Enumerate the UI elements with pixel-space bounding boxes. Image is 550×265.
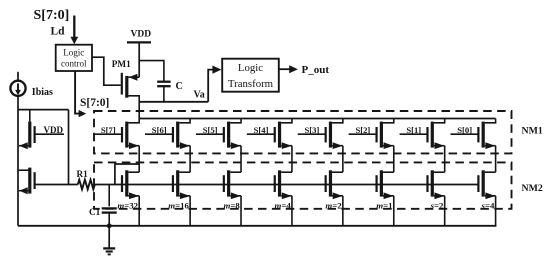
current source Ibias	[17, 72, 19, 81]
wire PM1 source node to capacitor C	[139, 61, 164, 82]
transistor NM2 (cell S[1], s=2)	[426, 175, 428, 192]
wire NM1 source to NM2 drain (cell S[2])	[393, 146, 395, 173]
transistor NM1 S[7]	[95, 133, 122, 135]
svg-text:m=8: m=8	[224, 200, 241, 210]
svg-text:R1: R1	[77, 169, 89, 179]
wire NM1 source to NM2 drain (cell S[6])	[189, 146, 191, 173]
wire NM1 source to NM2 drain (cell S[1])	[444, 146, 446, 173]
svg-text:m=32: m=32	[117, 200, 138, 210]
transistor NM1 S[1]	[400, 133, 428, 135]
wire logic control output to PM1 gate	[92, 57, 121, 85]
logic transform block U2	[222, 59, 279, 92]
svg-text:s=2: s=2	[430, 200, 444, 210]
wire NM1 drain bus	[139, 118, 495, 120]
wire ground rail	[18, 225, 496, 227]
svg-text:VDD: VDD	[44, 125, 64, 135]
svg-text:m=16: m=16	[168, 200, 189, 210]
svg-text:S[7]: S[7]	[101, 125, 116, 135]
svg-text:Logic: Logic	[238, 62, 263, 74]
ground	[108, 226, 110, 248]
transistor NM2 (cell S[5], m=8)	[223, 175, 225, 192]
wire Ibias branch vertical	[17, 96, 19, 226]
svg-text:S[0]: S[0]	[457, 125, 472, 135]
logic control block U1	[56, 45, 92, 71]
wire NM1 source to NM2 drain (cell S[5])	[240, 146, 242, 173]
transistor NM1 S[4]	[247, 133, 275, 135]
svg-text:S[2]: S[2]	[355, 125, 370, 135]
wire diode jog to gate bus (cell S[7])	[115, 164, 139, 185]
wire gate bus to C1	[108, 185, 110, 207]
wire NM2 source to ground rail (cell S[2])	[393, 196, 395, 226]
svg-text:VDD: VDD	[131, 29, 152, 39]
transistor NM1 S[6]	[145, 133, 173, 135]
wire VDD to PM1 source	[138, 42, 140, 77]
svg-text:S[5]: S[5]	[203, 125, 218, 135]
wire bias node to R1	[68, 110, 70, 185]
power VDD rail tick	[127, 41, 151, 43]
wire NM2 source to ground rail (cell S[6])	[189, 196, 191, 226]
wire NM2 source to ground rail (cell S[1])	[444, 196, 446, 226]
svg-text:m=4: m=4	[274, 200, 291, 210]
wire input arrow into logic control box	[73, 16, 75, 39]
transistor NM2 (cell S[3], m=2)	[325, 175, 327, 192]
svg-text:S[7:0]: S[7:0]	[34, 8, 70, 23]
wire NM2 source to ground rail (cell S[7])	[138, 196, 140, 226]
wire NM2 gate bus	[95, 184, 479, 186]
svg-text:P_out: P_out	[302, 64, 330, 76]
svg-text:S[4]: S[4]	[254, 125, 269, 135]
svg-text:NM2: NM2	[522, 183, 543, 194]
svg-text:S[3]: S[3]	[305, 125, 320, 135]
svg-text:S[6]: S[6]	[152, 125, 167, 135]
wire NM2 source to ground rail (cell S[0])	[495, 196, 497, 226]
wire NM2 source to ground rail (cell S[3])	[342, 196, 344, 226]
transistor NM2 (cell S[2], m=1)	[375, 175, 377, 192]
dashed box NM1 row	[94, 111, 512, 153]
svg-text:m=2: m=2	[325, 200, 342, 210]
transistor NM2 (cell S[0], s=4)	[477, 175, 479, 192]
wire NM1 source to NM2 drain (cell S[4])	[291, 146, 293, 173]
svg-text:Ibias: Ibias	[32, 87, 53, 98]
svg-text:S[7:0]: S[7:0]	[80, 97, 109, 109]
wire NM1 source to NM2 drain (cell S[0])	[495, 146, 497, 173]
transistor NM1 S[3]	[298, 133, 326, 135]
svg-text:Transform: Transform	[228, 78, 274, 90]
wire Va to logic transform arrow	[208, 70, 213, 102]
transistor MB1 (bias, mirrored)	[29, 110, 31, 122]
wire NM2 source to ground rail (cell S[4])	[291, 196, 293, 226]
svg-text:NM1: NM1	[522, 126, 543, 137]
svg-text:Ld: Ld	[51, 26, 66, 38]
wire logic control to S[7:0] gate bus arrow	[75, 71, 79, 114]
transistor NM1 S[2]	[349, 133, 377, 135]
svg-text:control: control	[61, 58, 87, 68]
wire NM2 source to ground rail (cell S[5])	[240, 196, 242, 226]
transistor MB2 (bias, mirrored)	[18, 169, 30, 171]
transistor NM2 (cell S[7], m=32)	[121, 175, 123, 192]
wire NM1 source to NM2 drain (cell S[7])	[138, 146, 140, 173]
svg-text:C: C	[176, 81, 183, 92]
transistor NM1 S[0]	[450, 133, 478, 135]
svg-text:s=4: s=4	[481, 200, 495, 210]
transistor PM1 (PMOS)	[121, 73, 123, 95]
transistor NM2 (cell S[4], m=4)	[274, 175, 276, 192]
capacitor C1	[102, 207, 117, 209]
svg-text:PM1: PM1	[112, 59, 131, 69]
wire node Va bus	[139, 101, 208, 103]
wire logic transform output arrow P_out	[279, 68, 290, 70]
wire Ibias top node	[18, 109, 69, 111]
dashed box NM2 row	[94, 162, 512, 208]
capacitor C	[157, 81, 170, 83]
resistor R1	[78, 180, 95, 190]
wire MB2 gate to R1	[35, 184, 78, 186]
svg-text:Logic: Logic	[63, 47, 84, 57]
transistor NM2 (cell S[6], m=16)	[172, 175, 174, 192]
junction dot (C1/ground rail)	[107, 223, 112, 228]
transistor NM1 S[5]	[196, 133, 224, 135]
wire NM1 source to NM2 drain (cell S[3])	[342, 146, 344, 173]
svg-text:m=1: m=1	[376, 200, 392, 210]
svg-text:S[1]: S[1]	[406, 125, 421, 135]
svg-text:Va: Va	[194, 89, 205, 100]
